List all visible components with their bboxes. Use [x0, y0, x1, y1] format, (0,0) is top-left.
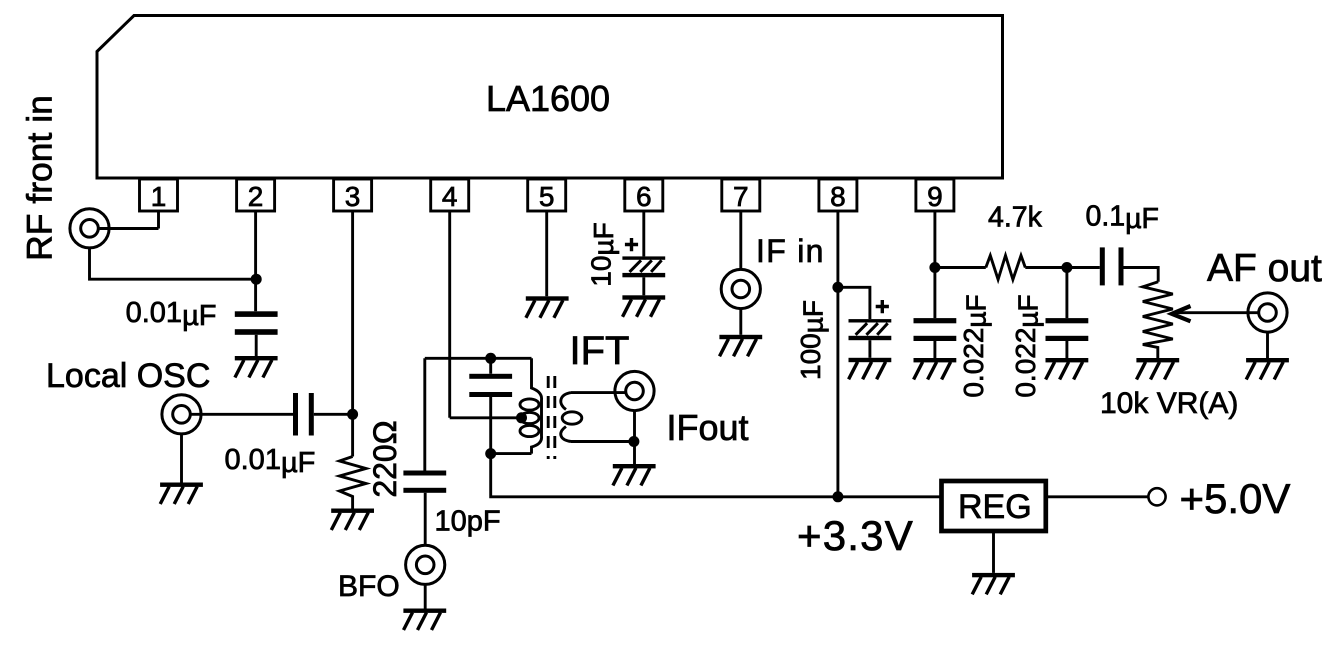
svg-text:BFO: BFO: [338, 570, 400, 603]
ground under J5: [719, 335, 762, 357]
wire J2 to ground: [180, 433, 183, 482]
pin 2 box: [237, 179, 275, 212]
pin 1 box: [140, 179, 178, 212]
wire pin3 lead: [351, 211, 354, 457]
node A junction: [251, 274, 262, 285]
wire secondary top to IFout: [571, 391, 626, 394]
plus sign C4: [625, 238, 638, 251]
node rail junction pin8: [832, 491, 843, 502]
node C junction: [1061, 262, 1072, 273]
ground under C7: [1046, 358, 1089, 380]
wire pin6 lead: [642, 211, 645, 256]
connector J2 Local OSC: [162, 395, 201, 434]
svg-text:AF out: AF out: [1207, 247, 1322, 290]
svg-text:3: 3: [345, 181, 361, 212]
wire REG to +5V terminal: [1046, 495, 1149, 498]
wire pin4 to coil tap: [450, 416, 518, 419]
svg-text:5: 5: [539, 181, 555, 212]
wire +3.3V rail: [491, 454, 942, 497]
wire pin8 to C5: [838, 287, 870, 319]
svg-text:IF in: IF in: [756, 233, 825, 269]
wire pin5 lead: [545, 211, 548, 296]
capacitor C7 0.022uF: [1046, 318, 1089, 341]
wire C7 to ground: [1065, 341, 1068, 358]
wire C4 to ground: [642, 277, 645, 295]
svg-text:Local OSC: Local OSC: [46, 357, 210, 395]
node tank bottom junction: [485, 448, 496, 459]
wire J4 to ground: [633, 410, 636, 464]
terminal +5V open circle: [1148, 488, 1165, 505]
pin 4 box: [431, 179, 469, 212]
capacitor C3 10pF: [403, 471, 446, 493]
svg-text:+3.3V: +3.3V: [797, 512, 914, 559]
pin 6 box: [625, 179, 663, 212]
transformer T1 secondary coil: [561, 393, 571, 442]
potentiometer VR1 10k: [1143, 282, 1173, 358]
svg-text:0.022µF: 0.022µF: [958, 294, 991, 397]
svg-text:+5.0V: +5.0V: [1180, 475, 1291, 522]
wire pin7 lead: [739, 211, 742, 270]
ground under VR1: [1136, 358, 1179, 380]
svg-text:4.7k: 4.7k: [988, 202, 1043, 234]
node coil tap junction: [516, 412, 527, 423]
wire C3 to BFO connector: [424, 493, 427, 545]
capacitor tank C 0.01 inside IFT: [489, 358, 492, 453]
svg-text:7: 7: [733, 181, 749, 212]
node secondary ground junction: [628, 436, 639, 447]
wire REG to ground: [992, 531, 995, 573]
ground under J6: [1246, 358, 1289, 380]
svg-text:1: 1: [151, 181, 167, 212]
ground under C1: [235, 356, 278, 378]
pin 9 box: [916, 179, 954, 212]
wire pin9 to R2: [935, 266, 986, 269]
svg-text:0.1µF: 0.1µF: [1086, 201, 1159, 236]
plus sign C5: [876, 300, 889, 313]
connector J6 AF out: [1248, 293, 1287, 332]
svg-text:220Ω: 220Ω: [367, 420, 403, 497]
capacitor C8 0.1uF: [1100, 247, 1124, 285]
connector J4 IFout: [615, 371, 654, 410]
resistor R2 4.7k: [986, 256, 1026, 280]
svg-text:0.01µF: 0.01µF: [126, 297, 217, 332]
svg-text:4: 4: [442, 181, 458, 212]
wire J5 to ground: [739, 308, 742, 335]
wire tank bottom to coil: [491, 452, 532, 455]
capacitor C4 10uF electrolytic: [622, 256, 665, 277]
connector J5 IF in: [721, 269, 760, 308]
svg-text:IFT: IFT: [570, 329, 630, 373]
svg-text:0.01µF: 0.01µF: [225, 444, 316, 479]
pin 3 box: [334, 179, 372, 212]
wire J1 bottom to node A: [90, 248, 257, 279]
wire node C to C7: [1065, 268, 1068, 319]
svg-text:REG: REG: [958, 488, 1032, 526]
pin 5 box: [528, 179, 566, 212]
ground under J3: [403, 609, 446, 631]
wire C6 to ground: [933, 341, 936, 358]
wire pin9 lead: [933, 211, 936, 318]
wire BFO branch vertical: [423, 358, 426, 470]
ground under J4: [613, 464, 656, 486]
ground under J2: [160, 483, 203, 505]
wire pin4 lead: [448, 211, 451, 418]
wire C8 to VR1: [1124, 268, 1159, 282]
ground under R1: [331, 509, 374, 531]
ground under REG: [972, 573, 1015, 595]
wire pin8 lead: [836, 211, 839, 497]
svg-text:6: 6: [636, 181, 652, 212]
wiper arrow: [1174, 311, 1259, 314]
resistor R1 220ohm: [340, 457, 367, 509]
wire C1 to ground: [255, 335, 258, 356]
svg-text:IFout: IFout: [667, 407, 749, 448]
capacitor C1 0.01uF: [235, 311, 278, 335]
node pin9 junction: [929, 262, 940, 273]
ground under C6: [914, 358, 957, 380]
capacitor C6 0.022uF: [914, 318, 957, 341]
wire J6 to ground: [1266, 332, 1269, 359]
node pin8 cap junction: [832, 282, 843, 293]
wire R2 to node C: [1025, 266, 1100, 269]
pin 8 box: [819, 179, 857, 212]
ground under C4: [622, 295, 665, 317]
wire J3 to ground: [424, 584, 427, 608]
transformer T1 core: [548, 376, 555, 459]
node B junction pin3: [347, 409, 358, 420]
IC U1 LA1600 body: [97, 16, 1003, 179]
wire J2 to C2: [190, 413, 293, 416]
connector J1 RF input: [70, 209, 109, 248]
wire tank top: [425, 357, 532, 360]
svg-text:9: 9: [927, 181, 943, 212]
wire J1 to pin1: [98, 227, 158, 230]
pin 7 box: [722, 179, 760, 212]
svg-text:10µF: 10µF: [586, 222, 619, 286]
wire pin2 lead: [254, 211, 257, 311]
connector J3 BFO: [406, 545, 445, 584]
transformer T1 primary coil: [532, 358, 542, 453]
wire pin1 lead: [157, 211, 160, 229]
capacitor C5 100uF electrolytic: [849, 319, 892, 340]
svg-text:2: 2: [248, 181, 264, 212]
ground under pin5: [526, 296, 569, 318]
regulator U2 REG: [942, 481, 1046, 531]
svg-text:RF front in: RF front in: [20, 95, 60, 261]
svg-text:8: 8: [830, 181, 846, 212]
ground under C5: [849, 358, 892, 380]
wire secondary bottom: [571, 440, 634, 443]
svg-text:10k VR(A): 10k VR(A): [1100, 387, 1238, 420]
node tank top junction: [485, 353, 496, 364]
wire C5 to ground: [868, 340, 871, 358]
svg-text:100µF: 100µF: [795, 300, 828, 380]
svg-text:0.022µF: 0.022µF: [1010, 294, 1043, 397]
wire C2 to pin3: [314, 413, 353, 416]
svg-text:10pF: 10pF: [435, 506, 501, 538]
svg-text:LA1600: LA1600: [486, 78, 610, 119]
capacitor C2 0.01uF: [293, 393, 314, 436]
